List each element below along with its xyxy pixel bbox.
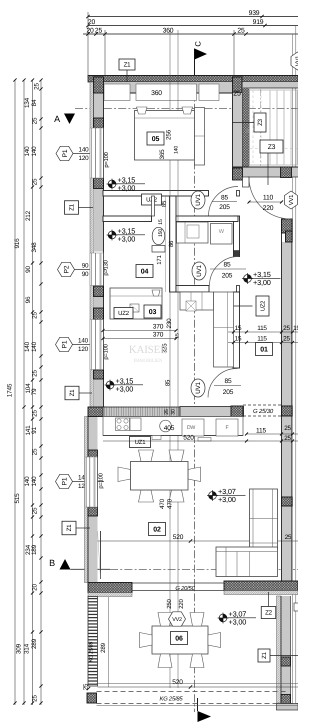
wall laundry east [234, 216, 240, 257]
label 01 [256, 343, 273, 356]
svg-text:405: 405 [164, 425, 175, 432]
svg-text:520: 520 [183, 435, 194, 442]
svg-text:Z1: Z1 [261, 651, 268, 658]
svg-text:25: 25 [32, 410, 39, 417]
svg-text:A: A [54, 114, 60, 124]
dim 520/115 kitchen [103, 440, 298, 442]
wall exterior east [282, 242, 292, 581]
pier top-left corner [94, 77, 104, 93]
label UZ2 hall [142, 194, 162, 205]
svg-text:140: 140 [24, 476, 31, 487]
section line B (dash-dot horizontal) [71, 568, 111, 570]
bed room05 [135, 111, 195, 161]
svg-text:25: 25 [32, 312, 39, 319]
label Z3 [260, 140, 283, 153]
wall hall north [103, 191, 209, 197]
svg-text:20: 20 [86, 28, 94, 35]
svg-text:348: 348 [31, 242, 38, 253]
pier bottom-left terrace [87, 693, 97, 703]
svg-text:VV2: VV2 [172, 617, 182, 623]
svg-text:25: 25 [283, 325, 290, 332]
svg-text:Z2: Z2 [265, 610, 273, 617]
marker VV top right [291, 52, 304, 70]
window marker P1 (140/120) mid [56, 337, 105, 353]
svg-text:370: 370 [153, 324, 164, 331]
svg-text:04: 04 [141, 269, 149, 276]
windows west wall upper [90, 128, 104, 178]
svg-text:120: 120 [78, 346, 89, 353]
svg-text:F: F [226, 425, 229, 431]
svg-text:150: 150 [158, 229, 164, 237]
svg-text:314: 314 [24, 643, 31, 654]
wall exterior west insulation [90, 82, 94, 408]
svg-text:205: 205 [223, 389, 234, 396]
svg-text:+3,00: +3,00 [116, 385, 134, 394]
svg-text:470: 470 [159, 498, 166, 509]
svg-text:250: 250 [166, 598, 173, 608]
door arc room01 north [209, 256, 239, 285]
svg-text:25: 25 [285, 534, 292, 541]
level mark bathroom [107, 226, 145, 243]
svg-text:KG 25/85: KG 25/85 [89, 642, 95, 663]
svg-text:115: 115 [257, 325, 267, 332]
wardrobe room01 [180, 292, 214, 310]
wall hall north right jamb [237, 191, 240, 197]
svg-text:189: 189 [31, 544, 38, 555]
table terrace room06 [152, 626, 208, 654]
svg-text:UZ1: UZ1 [135, 439, 147, 446]
svg-text:25: 25 [237, 28, 245, 35]
svg-text:90: 90 [82, 271, 89, 278]
door leaf terrace west [100, 531, 102, 579]
svg-text:220: 220 [178, 598, 185, 608]
svg-text:25: 25 [284, 425, 291, 432]
label 03 [144, 305, 161, 318]
svg-text:939: 939 [249, 10, 260, 17]
label Z3 rotated [254, 113, 266, 132]
wall exterior west upper segments [94, 93, 104, 118]
dining table room02 [139, 450, 154, 462]
label Z1 west low [62, 521, 76, 535]
svg-text:919: 919 [253, 19, 264, 26]
svg-text:01: 01 [260, 347, 268, 354]
svg-text:110: 110 [263, 195, 274, 202]
svg-text:P1: P1 [62, 477, 69, 485]
svg-text:02: 02 [153, 527, 161, 534]
closet room05 [195, 108, 205, 166]
wall exterior west lower segments [88, 417, 98, 451]
nightstand room03 [130, 304, 139, 312]
door arc room01 south [208, 368, 238, 397]
label Z1 top [119, 59, 135, 70]
svg-text:P1: P1 [62, 340, 69, 348]
wall balcony south [233, 167, 299, 177]
piers east wall [282, 219, 293, 233]
svg-text:140: 140 [79, 147, 90, 154]
svg-text:VV1: VV1 [288, 195, 295, 206]
wall balcony west [243, 88, 250, 180]
svg-text:25: 25 [32, 695, 39, 702]
svg-text:Z1: Z1 [69, 203, 76, 211]
svg-text:205: 205 [219, 204, 230, 211]
svg-text:DW: DW [187, 425, 196, 431]
section marker C bottom [198, 711, 212, 722]
svg-text:85: 85 [221, 195, 228, 202]
leader Z3 [267, 153, 269, 185]
svg-text:Z3: Z3 [257, 118, 264, 126]
svg-text:25: 25 [233, 91, 241, 98]
svg-text:B: B [49, 558, 55, 568]
svg-text:140: 140 [31, 146, 38, 157]
svg-text:360: 360 [151, 90, 162, 97]
dim 520 living [98, 540, 299, 542]
svg-text:UZ2: UZ2 [260, 301, 267, 311]
svg-text:134: 134 [24, 97, 31, 108]
svg-text:140: 140 [24, 341, 31, 352]
interior vertical dimension lines [169, 30, 171, 688]
section line C (dash-dot vertical) [194, 75, 196, 712]
wall bathroom north [103, 216, 152, 222]
svg-text:06: 06 [175, 636, 183, 643]
door leaf bathroom [152, 196, 155, 216]
svg-text:KAISER: KAISER [129, 344, 168, 356]
level mark room05 [107, 175, 145, 192]
beam G25/30 dashed [243, 404, 282, 406]
window west wall lower [85, 457, 98, 507]
svg-text:85: 85 [165, 379, 172, 386]
svg-text:140: 140 [31, 341, 38, 352]
svg-text:W: W [219, 229, 225, 235]
wall laundry south [176, 286, 209, 293]
svg-text:+3,00: +3,00 [218, 495, 236, 504]
svg-text:86: 86 [168, 240, 175, 247]
dimension ticks left [39, 78, 42, 81]
marker UV1 room01n [192, 262, 206, 280]
svg-text:P2: P2 [64, 265, 71, 273]
label UZ2 room03 [114, 308, 133, 319]
label Z1 west [65, 201, 79, 215]
svg-text:25: 25 [32, 117, 39, 124]
level mark terrace [218, 609, 256, 626]
bed room03 [110, 288, 162, 319]
svg-text:15: 15 [175, 333, 181, 339]
svg-text:205: 205 [222, 273, 233, 280]
piers west wall upper [94, 77, 104, 93]
label UZ1 [130, 437, 151, 448]
wall room01 west [233, 292, 240, 368]
svg-text:IMMOBILIEN: IMMOBILIEN [134, 358, 163, 364]
svg-text:30: 30 [171, 409, 177, 415]
svg-text:G 25/30: G 25/30 [253, 408, 274, 415]
svg-text:UV1: UV1 [196, 264, 203, 276]
svg-text:15: 15 [235, 336, 242, 343]
svg-text:91: 91 [31, 427, 38, 434]
svg-text:85: 85 [225, 378, 232, 385]
wall south of living with sliding opening G20/50 [224, 581, 298, 591]
svg-text:84: 84 [31, 99, 38, 106]
svg-text:520: 520 [173, 534, 184, 541]
svg-text:05: 05 [152, 136, 160, 143]
wall kitchen north / beam [103, 407, 180, 417]
wall bathroom east [170, 196, 177, 292]
svg-text:115: 115 [257, 336, 267, 343]
piers west wall lower [88, 450, 98, 458]
svg-text:+3,00: +3,00 [253, 278, 271, 287]
svg-text:85: 85 [224, 262, 231, 269]
svg-text:360: 360 [163, 28, 174, 35]
svg-text:140: 140 [24, 146, 31, 157]
svg-text:C: C [194, 41, 203, 47]
svg-text:309: 309 [16, 643, 23, 654]
svg-text:470: 470 [167, 498, 174, 509]
svg-text:p=130: p=130 [103, 260, 110, 275]
svg-text:25: 25 [164, 409, 170, 415]
svg-text:15: 15 [158, 219, 164, 225]
window marker P1 (140/120) lower [56, 474, 105, 490]
svg-text:UZ2: UZ2 [118, 310, 130, 317]
svg-text:289: 289 [31, 638, 38, 649]
svg-text:Z1: Z1 [66, 524, 73, 532]
level mark living [207, 487, 245, 504]
kitchen counter [103, 417, 243, 436]
label UZ2 east rot [256, 296, 269, 316]
svg-text:120: 120 [79, 155, 90, 162]
svg-text:140: 140 [31, 476, 38, 487]
svg-text:20: 20 [32, 584, 39, 591]
svg-text:25: 25 [32, 370, 39, 377]
pier top wall at x233 [233, 77, 243, 93]
fragment neighbor right [294, 603, 300, 611]
stairs strip west [88, 597, 98, 687]
svg-text:25: 25 [32, 178, 39, 185]
svg-text:115: 115 [256, 428, 266, 435]
svg-text:25: 25 [283, 336, 290, 343]
svg-text:25: 25 [34, 83, 41, 90]
label 04 [136, 265, 153, 278]
svg-text:p=100: p=100 [103, 152, 110, 167]
svg-text:Z1: Z1 [124, 62, 132, 69]
marker UV1 hall [191, 191, 205, 209]
svg-text:+3,00: +3,00 [229, 618, 247, 627]
dims 15/115/25 room01 [228, 331, 298, 333]
svg-text:96: 96 [25, 296, 32, 303]
dim 289 terrace [108, 597, 110, 687]
svg-text:Z1: Z1 [69, 389, 76, 397]
svg-text:P1: P1 [62, 149, 69, 157]
door arc entry east [249, 178, 291, 220]
level mark laundry [242, 270, 280, 287]
svg-text:G 20/50: G 20/50 [175, 585, 195, 592]
dims 370/370 room03 [103, 330, 176, 332]
svg-text:916: 916 [14, 238, 21, 249]
svg-text:25: 25 [284, 435, 291, 442]
label Z2 [268, 592, 270, 607]
svg-text:256: 256 [166, 129, 173, 140]
svg-text:+3,00: +3,00 [118, 235, 136, 244]
svg-text:KG 25/85: KG 25/85 [160, 696, 184, 703]
svg-text:VV1: VV1 [295, 56, 298, 67]
leader Z3 rotated [232, 122, 254, 124]
terrace south dashed edge KG25/85 [97, 683, 299, 685]
label 05 [147, 132, 164, 145]
balcony decking [250, 90, 298, 165]
wall south-west corner band [88, 583, 132, 593]
svg-text:25: 25 [32, 448, 39, 455]
svg-text:25: 25 [32, 507, 39, 514]
svg-text:220: 220 [263, 205, 274, 212]
svg-text:Z3: Z3 [268, 144, 276, 151]
laundry counter and washer [177, 222, 209, 243]
svg-text:520: 520 [172, 679, 183, 686]
label Z1 terrace [258, 649, 270, 662]
marker VV1 [285, 191, 298, 209]
svg-text:365: 365 [159, 149, 166, 160]
svg-text:+3,00: +3,00 [118, 184, 136, 193]
svg-text:p=100: p=100 [98, 473, 105, 488]
pier west wall at kitchen wall [88, 407, 105, 417]
marker VV2 [169, 612, 186, 626]
dim 520 terrace [98, 686, 299, 688]
svg-text:1745: 1745 [7, 383, 14, 397]
label Z1 west mid [65, 386, 79, 400]
svg-text:140: 140 [174, 146, 180, 154]
svg-text:p=100: p=100 [103, 344, 110, 359]
svg-text:UV1: UV1 [195, 193, 202, 205]
svg-text:515: 515 [14, 493, 21, 504]
window marker P1 (140/120) [56, 146, 105, 162]
svg-text:85: 85 [161, 200, 168, 207]
door arc hall [209, 187, 239, 217]
svg-text:79: 79 [31, 388, 38, 395]
svg-text:230: 230 [166, 318, 173, 329]
dimension chain top (939/919/20-25-360-25) [88, 16, 298, 18]
section line A (dash-dot horizontal) [75, 107, 298, 109]
sofa room02 [250, 489, 278, 549]
svg-text:289: 289 [100, 642, 107, 652]
marker UV1 room01s [191, 379, 205, 397]
svg-text:370: 370 [153, 332, 164, 339]
lintels north wall with 360 [104, 84, 130, 101]
svg-text:UV1: UV1 [195, 381, 202, 393]
wc toilet [152, 227, 165, 244]
svg-text:140: 140 [78, 338, 89, 345]
label 06 [171, 632, 188, 645]
svg-text:171: 171 [156, 254, 163, 264]
label 02 [149, 523, 166, 536]
svg-text:90: 90 [82, 263, 89, 270]
wall east terrace [277, 596, 282, 703]
level mark room03 [105, 376, 143, 393]
window marker P2 (90/90) [58, 262, 107, 278]
wall exterior north [88, 76, 298, 83]
svg-text:90: 90 [25, 266, 32, 273]
svg-text:15: 15 [235, 325, 242, 332]
dimension chain lines left [14, 80, 16, 705]
svg-text:212: 212 [25, 210, 32, 221]
svg-text:03: 03 [149, 309, 157, 316]
